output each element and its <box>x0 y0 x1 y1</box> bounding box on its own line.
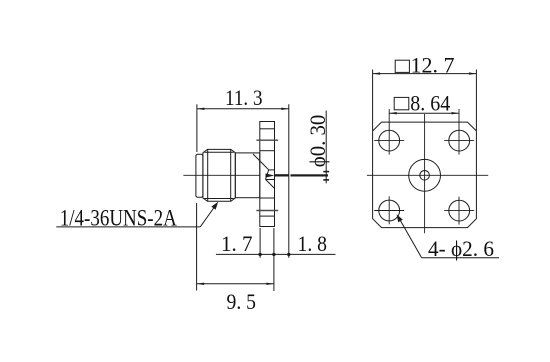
center inner circle <box>420 171 430 181</box>
dim 9.5 left extension line <box>196 203 198 291</box>
dim 9.5 right arrow <box>266 283 274 285</box>
nut right chamfer line <box>230 150 232 202</box>
socket arrow <box>266 173 275 177</box>
flange hole top edge line <box>260 128 275 130</box>
dim 12.7 square symbol <box>395 60 409 72</box>
hole top-right <box>449 130 470 151</box>
flange lower hole line b <box>260 215 275 217</box>
svg-text:1. 8: 1. 8 <box>298 231 328 256</box>
dim dot c <box>287 253 290 256</box>
hole label leader arrow <box>397 214 403 222</box>
dim dot b <box>272 253 275 256</box>
dielectric cone upper diagonal <box>253 154 269 170</box>
svg-text:8. 64: 8. 64 <box>410 91 450 116</box>
cone upper horizontal <box>269 169 275 171</box>
dim 8.64 line <box>389 112 459 114</box>
hole label leader underline <box>422 257 499 259</box>
connector back cap <box>196 154 203 197</box>
thread label leader underline <box>56 226 200 228</box>
nut top chamfer line <box>204 151 234 153</box>
svg-text:4- ϕ2. 6: 4- ϕ2. 6 <box>428 236 494 261</box>
center axis line (side view) <box>183 174 259 176</box>
dim 8.64 left arrow <box>389 112 397 114</box>
top hole centerline <box>256 139 278 141</box>
flange lower hole line a <box>260 197 275 199</box>
cone lower horizontal <box>266 179 275 181</box>
dim 9.5 line <box>197 283 274 285</box>
horizontal centerline <box>367 174 488 176</box>
dim 9.5 left arrow <box>197 283 205 285</box>
bottom hole centerline <box>256 210 278 212</box>
cone lower diagonal <box>266 179 275 188</box>
dim 12.7 left extension <box>372 70 374 131</box>
dim 12.7 left arrow <box>373 72 381 74</box>
flange right extension line down <box>273 228 275 291</box>
hole top-left <box>379 130 400 151</box>
nut left chamfer line <box>207 150 209 202</box>
dim 12.7 right extension <box>475 70 477 131</box>
thread label leader arrow <box>211 202 218 210</box>
flange hole bottom edge line <box>260 150 275 152</box>
svg-text:1. 7: 1. 7 <box>221 231 253 256</box>
dim 11.3 line <box>197 108 289 110</box>
dim 11.3 left extension line <box>196 104 198 152</box>
svg-text:12. 7: 12. 7 <box>411 52 455 77</box>
flange left extension line down <box>259 228 261 258</box>
dim 11.3 right arrow <box>281 108 289 110</box>
dim 8.64 right arrow <box>452 112 460 114</box>
vertical centerline <box>424 114 426 233</box>
thread label leader diagonal <box>200 205 216 227</box>
nut bottom chamfer line <box>204 198 234 200</box>
hole bottom-left <box>379 200 400 221</box>
svg-text:9. 5: 9. 5 <box>227 289 257 314</box>
flange plate (edge view) <box>260 122 275 227</box>
svg-text:11. 3: 11. 3 <box>225 85 263 110</box>
coupling nut body <box>203 149 235 201</box>
dim 12.7 line <box>373 73 477 75</box>
phi dim tick upper <box>323 171 329 173</box>
dim phi 0.30 line <box>325 111 327 184</box>
dim 11.3 left arrow <box>197 108 205 110</box>
center pin <box>275 174 289 176</box>
svg-text:ϕ0. 30: ϕ0. 30 <box>305 115 330 168</box>
dim 8.64 square symbol <box>394 97 409 109</box>
hole label leader diagonal <box>399 217 422 258</box>
flange square outline <box>373 122 477 228</box>
cone middle diagonal <box>266 170 269 180</box>
dim 12.7 right arrow <box>469 72 477 74</box>
dim 11.3 / pin tip right extension line <box>288 104 290 257</box>
center outer circle <box>409 159 441 191</box>
hole bottom-right <box>449 200 470 221</box>
pin diameter extension lines <box>291 174 329 176</box>
phi dim tick lower <box>323 179 329 181</box>
svg-text:1/4-36UNS-2A: 1/4-36UNS-2A <box>60 205 177 230</box>
dim 1.7 / 1.8 line <box>216 253 336 255</box>
barrel section <box>235 153 259 198</box>
dim dot a <box>258 253 261 256</box>
